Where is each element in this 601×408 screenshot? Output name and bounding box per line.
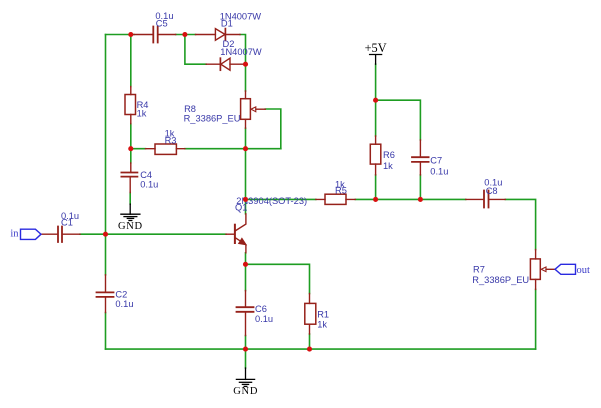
label C8 bbox=[484, 178, 502, 196]
node top-left bbox=[128, 32, 133, 37]
capacitor C2 bbox=[97, 275, 114, 313]
wire C6 column bbox=[245, 264, 247, 349]
wire R8 bottom to node bbox=[245, 128, 247, 149]
wire C4 bottom to GND bbox=[129, 193, 131, 205]
wire R5 row left bbox=[246, 198, 466, 200]
svg-text:GND: GND bbox=[118, 221, 143, 232]
wire D2 cathode to left rail up to node bbox=[185, 35, 206, 65]
label C1 bbox=[61, 211, 79, 228]
svg-text:GND: GND bbox=[233, 386, 258, 397]
svg-text:0.1u: 0.1u bbox=[430, 166, 448, 176]
svg-text:R3: R3 bbox=[165, 135, 177, 145]
resistor R4 bbox=[125, 87, 136, 124]
capacitor C4 bbox=[121, 163, 137, 193]
label R4 bbox=[137, 100, 149, 118]
label R6 bbox=[383, 150, 395, 171]
transistor Q1 bbox=[226, 214, 246, 253]
node emitter bbox=[243, 262, 248, 267]
label Q1 bbox=[235, 196, 307, 213]
label in bbox=[10, 229, 19, 240]
wire R6 bottom bbox=[375, 175, 377, 200]
capacitor C7 bbox=[412, 140, 429, 175]
capacitor C1 bbox=[41, 227, 80, 243]
wire D1 cathode to corner down to D2 bbox=[240, 35, 246, 65]
svg-text:0.1u: 0.1u bbox=[115, 299, 133, 309]
svg-text:C2: C2 bbox=[115, 290, 127, 300]
svg-text:R_3386P_EU: R_3386P_EU bbox=[184, 114, 241, 124]
resistor R3 bbox=[146, 144, 185, 154]
wire GND2 stub bbox=[245, 349, 247, 368]
node bottom C6 bbox=[243, 347, 248, 352]
wire left rail below C2 bbox=[105, 234, 107, 349]
node bottom R1 bbox=[307, 347, 312, 352]
label R1 bbox=[317, 310, 329, 330]
label R7 bbox=[472, 264, 529, 284]
label +5V bbox=[365, 41, 387, 55]
svg-text:0.1u: 0.1u bbox=[255, 314, 273, 324]
label C6 bbox=[255, 304, 273, 324]
capacitor C6 bbox=[237, 291, 254, 336]
svg-text:1k: 1k bbox=[137, 108, 147, 118]
label C7 bbox=[430, 155, 448, 176]
label GND1 bbox=[118, 221, 143, 232]
wire R8 wiper loop bbox=[265, 109, 281, 149]
node C5-D1 bbox=[182, 32, 187, 37]
label R8 bbox=[184, 104, 241, 124]
node R6 bottom bbox=[373, 197, 378, 202]
resistor R5 bbox=[316, 194, 356, 204]
potentiometer R8 bbox=[241, 91, 266, 128]
wire collector column bbox=[245, 149, 247, 214]
svg-text:C4: C4 bbox=[140, 170, 152, 180]
label C4 bbox=[140, 170, 158, 190]
wire C7 bottom bbox=[419, 175, 421, 200]
port in bbox=[21, 229, 42, 239]
label C5 bbox=[155, 11, 173, 29]
svg-text:R1: R1 bbox=[317, 310, 329, 320]
capacitor C5 bbox=[134, 27, 176, 43]
svg-text:R_3386P_EU: R_3386P_EU bbox=[472, 275, 529, 285]
wire D2 node down to R8 bbox=[245, 64, 247, 91]
wire R7 bottom to bottom rail bbox=[535, 289, 537, 349]
node collector bbox=[243, 197, 248, 202]
svg-text:R8: R8 bbox=[184, 104, 196, 114]
node in bbox=[103, 232, 108, 237]
label D1 bbox=[220, 12, 262, 29]
wire C4 branch bbox=[130, 149, 132, 163]
wire R4 branch top bbox=[130, 35, 132, 87]
wire emitter down bbox=[245, 253, 247, 264]
svg-text:R7: R7 bbox=[473, 264, 485, 274]
svg-text:+5V: +5V bbox=[365, 41, 387, 55]
wire left rail x=105.5 bbox=[105, 35, 107, 235]
svg-text:in: in bbox=[10, 229, 19, 240]
svg-text:out: out bbox=[577, 265, 591, 276]
node R3 left bbox=[128, 146, 133, 151]
svg-text:0.1u: 0.1u bbox=[140, 180, 158, 190]
diode D1 bbox=[196, 29, 241, 41]
ground GND1 bbox=[121, 204, 140, 220]
svg-text:C1: C1 bbox=[61, 218, 73, 228]
node C7 bottom bbox=[418, 197, 423, 202]
svg-text:R5: R5 bbox=[335, 185, 347, 195]
node R3 right bbox=[243, 146, 248, 151]
wire C8 right to right rail bbox=[505, 199, 535, 249]
wire top row left bbox=[106, 34, 135, 36]
wire R4 bottom to node bbox=[130, 124, 132, 149]
diode D2 bbox=[206, 58, 244, 70]
wire emitter row to R1 bbox=[246, 264, 310, 293]
wire C5 right to D1 bbox=[176, 34, 196, 36]
svg-text:D1: D1 bbox=[221, 19, 233, 29]
wire base row bbox=[80, 233, 226, 235]
label D2 bbox=[220, 39, 262, 57]
ground GND2 bbox=[236, 368, 254, 386]
svg-text:1k: 1k bbox=[383, 161, 393, 171]
port out bbox=[555, 264, 576, 274]
svg-text:C6: C6 bbox=[255, 304, 267, 314]
svg-text:Q1: Q1 bbox=[235, 203, 247, 213]
svg-text:C5: C5 bbox=[156, 19, 168, 29]
wire bottom rail bbox=[106, 348, 536, 350]
svg-text:C8: C8 bbox=[486, 186, 498, 196]
svg-text:R6: R6 bbox=[383, 150, 395, 160]
svg-text:1k: 1k bbox=[317, 320, 327, 330]
svg-text:1N4007W: 1N4007W bbox=[220, 47, 262, 57]
label out bbox=[577, 265, 591, 276]
wire R3 row bbox=[131, 148, 281, 150]
label C2 bbox=[115, 290, 133, 310]
wire R1 bottom bbox=[309, 334, 311, 349]
label R3 bbox=[165, 129, 177, 146]
resistor R6 bbox=[370, 136, 381, 175]
power +5V bbox=[370, 55, 382, 65]
capacitor C8 bbox=[466, 191, 506, 208]
node D2 bbox=[243, 62, 248, 67]
resistor R1 bbox=[305, 294, 316, 334]
node +5V bbox=[373, 98, 378, 103]
label R5 bbox=[335, 179, 347, 195]
wire C7 branch top bbox=[376, 100, 421, 140]
wire +5V stem bbox=[375, 64, 377, 136]
svg-text:C7: C7 bbox=[430, 155, 442, 165]
label GND2 bbox=[233, 386, 258, 397]
potentiometer R7 bbox=[530, 250, 554, 290]
